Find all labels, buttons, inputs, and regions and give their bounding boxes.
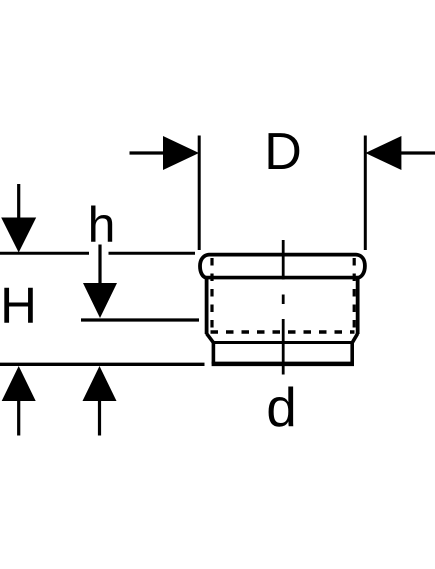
dimension h bottom arrowhead [83,366,117,401]
dimension h bottom arrow tail [98,400,101,436]
hidden line right socket wall [353,258,356,332]
dimension D left extension line [198,136,201,251]
dimension D left arrowhead [163,136,199,170]
fitting left chamfer [207,334,214,343]
fitting skirt left wall [212,342,216,363]
dimension h arrowhead [83,283,117,318]
svg-text:H: H [0,277,37,334]
h reference line [81,318,199,321]
svg-text:D: D [264,123,302,181]
dimension h arrow tail [98,245,101,286]
dimension D line right tail [400,151,435,154]
hidden line socket depth [211,330,355,333]
fitting right chamfer [352,334,357,343]
hidden line left socket wall [210,258,213,332]
svg-text:d: d [266,376,297,438]
dimension D line left tail [130,151,165,154]
dimension H bottom arrow tail [17,400,20,436]
fitting bead bottom edge [205,276,359,280]
fitting skirt top edge [213,341,352,344]
fitting bottom edge [212,362,354,367]
dimension H top arrowhead [1,218,36,253]
fitting skirt right wall [350,342,354,363]
dimension D right extension line [364,136,367,251]
top reference line [0,252,195,255]
dimension D right arrowhead [365,136,401,170]
dimension H bottom arrowhead [2,366,36,401]
dimension H top arrow tail [17,184,20,220]
fitting outline: bead and side walls [200,255,365,334]
center line [282,240,285,375]
bottom reference line [0,363,205,366]
